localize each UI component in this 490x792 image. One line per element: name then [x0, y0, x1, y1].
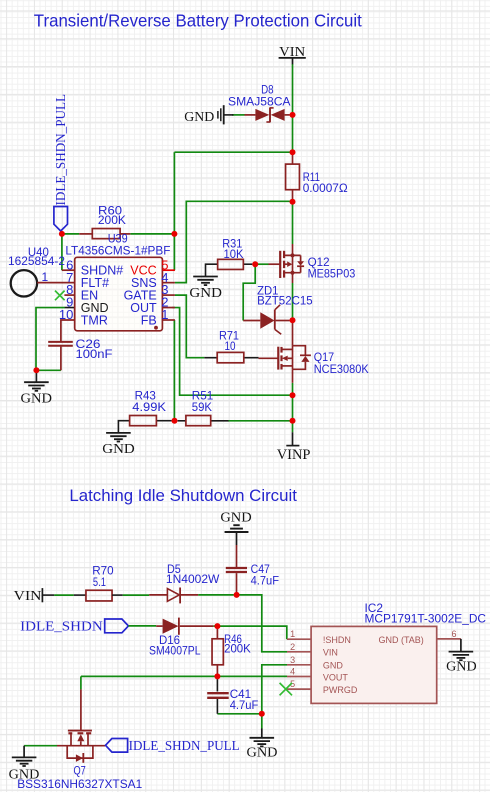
svg-text:GND: GND: [189, 286, 222, 301]
svg-text:GND: GND: [21, 392, 53, 407]
svg-text:4.7uF: 4.7uF: [251, 573, 279, 587]
svg-text:4.7uF: 4.7uF: [230, 698, 259, 712]
svg-text:IDLE_SHDN_PULL: IDLE_SHDN_PULL: [54, 94, 69, 206]
svg-text:FB: FB: [141, 313, 157, 327]
svg-text:GND (TAB): GND (TAB): [378, 635, 423, 645]
svg-text:!SHDN: !SHDN: [323, 635, 351, 645]
svg-text:59K: 59K: [192, 400, 212, 414]
svg-text:10: 10: [225, 339, 236, 353]
svg-text:1N4002W: 1N4002W: [166, 572, 220, 586]
svg-text:GND: GND: [446, 660, 477, 675]
svg-text:1: 1: [161, 307, 168, 322]
svg-text:NCE3080K: NCE3080K: [314, 362, 369, 376]
svg-text:BSS316NH6327XTSA1: BSS316NH6327XTSA1: [17, 777, 142, 791]
svg-text:3: 3: [290, 655, 295, 665]
svg-text:1625854-2: 1625854-2: [8, 254, 65, 268]
svg-text:GND: GND: [184, 110, 214, 125]
svg-text:Latching Idle Shutdown Circuit: Latching Idle Shutdown Circuit: [69, 486, 297, 505]
svg-text:PWRGD: PWRGD: [323, 685, 358, 695]
svg-text:SMAJ58CA: SMAJ58CA: [228, 95, 291, 109]
svg-text:ME85P03: ME85P03: [308, 266, 356, 280]
svg-text:5.1: 5.1: [93, 575, 106, 589]
svg-text:GND: GND: [220, 510, 251, 525]
svg-text:Q7: Q7: [74, 764, 87, 778]
svg-text:4.99K: 4.99K: [132, 400, 166, 414]
svg-text:IDLE_SHDN: IDLE_SHDN: [20, 620, 103, 635]
svg-text:SM4007PL: SM4007PL: [149, 644, 201, 658]
svg-text:10: 10: [59, 307, 73, 322]
svg-text:BZT52C15: BZT52C15: [257, 293, 313, 307]
svg-text:200K: 200K: [98, 213, 126, 227]
svg-text:VIN: VIN: [323, 648, 338, 658]
svg-text:IDLE_SHDN_PULL: IDLE_SHDN_PULL: [129, 739, 240, 754]
svg-text:0.0007Ω: 0.0007Ω: [303, 181, 348, 195]
svg-text:1: 1: [42, 270, 49, 284]
svg-text:6: 6: [452, 629, 457, 639]
svg-text:Transient/Reverse Battery Prot: Transient/Reverse Battery Protection Cir…: [34, 11, 362, 31]
svg-text:200K: 200K: [224, 641, 251, 655]
svg-text:LT4356CMS-1#PBF: LT4356CMS-1#PBF: [65, 243, 170, 257]
svg-text:100nF: 100nF: [76, 347, 113, 361]
svg-text:GND: GND: [247, 746, 278, 761]
svg-text:GND: GND: [323, 661, 344, 671]
svg-text:4: 4: [290, 667, 295, 677]
svg-text:TMR: TMR: [81, 313, 108, 327]
svg-text:GND: GND: [102, 442, 135, 457]
svg-text:VIN: VIN: [279, 45, 305, 60]
svg-text:10K: 10K: [224, 247, 244, 261]
svg-text:VINP: VINP: [277, 447, 311, 463]
svg-text:VIN: VIN: [14, 589, 42, 604]
svg-text:1: 1: [290, 629, 295, 639]
svg-text:MCP1791T-3002E_DC: MCP1791T-3002E_DC: [365, 612, 487, 626]
svg-text:2: 2: [290, 642, 295, 652]
svg-text:VOUT: VOUT: [323, 672, 349, 682]
